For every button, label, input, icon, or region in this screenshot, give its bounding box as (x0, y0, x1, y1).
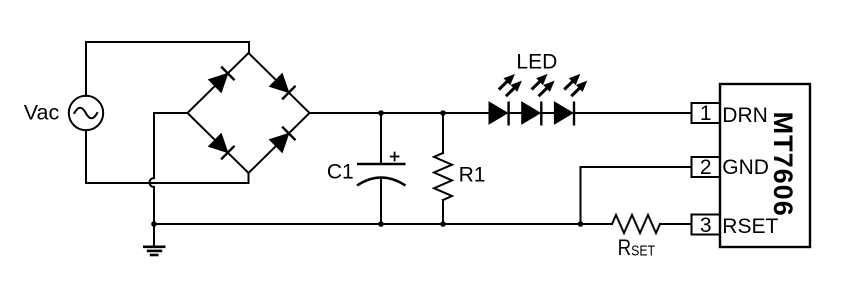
wire bridge top vertex drop (248, 42, 250, 53)
ac source Vac circle (69, 96, 103, 130)
capacitor C1 top plate (357, 163, 406, 165)
svg-text:1: 1 (700, 102, 712, 125)
wire bridge left vertex to vertical (154, 112, 188, 114)
wire Vac bottom lead (85, 130, 87, 183)
svg-text:R1: R1 (459, 164, 486, 187)
svg-text:Vac: Vac (24, 100, 60, 124)
wire gnd branch vertical (580, 167, 582, 224)
diode D1 bridge left-top (209, 67, 235, 93)
wire bridge edge bottom-right (249, 113, 310, 173)
junction C1 top (378, 110, 384, 116)
wire Vac top lead (85, 42, 87, 96)
junction ground (151, 221, 157, 227)
wire dc rail to first LED (310, 112, 490, 114)
wire bridge edge top-right (249, 53, 310, 113)
pin 2 box (692, 157, 721, 177)
svg-text:DRN: DRN (722, 104, 768, 127)
wire hop over ac wire (150, 178, 155, 187)
wire ground rail (154, 223, 612, 225)
ground symbol (143, 247, 166, 255)
ac source sine wave (74, 108, 97, 119)
LED 3 (554, 74, 587, 126)
capacitor C1 bottom curved plate (357, 178, 406, 186)
wire top rail (86, 41, 249, 43)
junction gnd branch (578, 221, 584, 227)
pin 1 box (692, 103, 721, 123)
capacitor C1 plus sign (390, 152, 400, 162)
resistor R1 zigzag (434, 153, 452, 200)
wire vertical upper segment (153, 113, 155, 178)
wire vertical lower segment (153, 187, 155, 224)
wire ground stub (153, 224, 155, 246)
wire gnd branch horizontal to pin 2 (581, 166, 692, 168)
pin 3 box (692, 215, 721, 235)
ic U1 MT7606 body (720, 84, 810, 247)
junction C1 bottom (378, 221, 384, 227)
svg-text:GND: GND (722, 156, 769, 179)
wire C1 top lead (380, 113, 382, 164)
diode D2 bridge top-right (270, 74, 296, 100)
wire RSET to pin 3 (660, 223, 692, 225)
diode D3 bridge left-bottom (209, 134, 235, 160)
junction R1 top (440, 110, 446, 116)
label RSET value (618, 237, 655, 261)
svg-text:3: 3 (700, 214, 712, 237)
wire bridge edge left-bottom (188, 113, 249, 173)
svg-text:MT7606: MT7606 (768, 112, 798, 217)
wire bottom ac horizontal (86, 182, 249, 184)
wire LED3 to pin 1 (574, 112, 692, 114)
wire R1 bottom lead (442, 200, 444, 224)
wire between LED1 and LED2 (509, 112, 522, 114)
svg-text:2: 2 (700, 156, 712, 179)
diode D4 bridge bottom-right (270, 127, 296, 153)
wire bridge bottom vertex stub (248, 173, 250, 183)
LED 2 (522, 74, 555, 126)
svg-text:C1: C1 (327, 160, 354, 183)
resistor RSET zigzag (612, 215, 660, 233)
LED 1 (489, 74, 522, 126)
wire bridge edge left-top (188, 53, 249, 113)
svg-text:RSET: RSET (722, 215, 778, 238)
wire R1 top lead (442, 113, 444, 153)
wire C1 bottom lead (380, 178, 382, 225)
junction R1 bottom (440, 221, 446, 227)
svg-text:LED: LED (516, 50, 557, 73)
wire between LED2 and LED3 (541, 112, 554, 114)
